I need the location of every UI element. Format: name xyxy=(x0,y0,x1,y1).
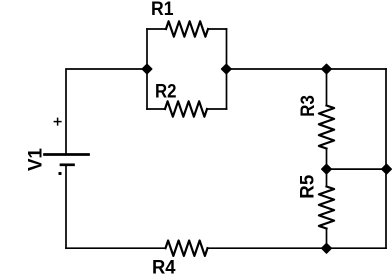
resistor R1 xyxy=(166,21,208,36)
node junction right of parallel block xyxy=(222,64,232,74)
node junction left of parallel block xyxy=(142,64,152,74)
wire bottom: left corner to R4 xyxy=(66,247,166,249)
wire R2 branch left xyxy=(147,108,165,110)
wire mid horizontal xyxy=(327,168,387,170)
resistor R5 xyxy=(319,187,334,229)
wire R2 branch right xyxy=(207,108,227,110)
battery V1 plate short (negative) xyxy=(61,163,74,166)
wire parallel-block right vertical xyxy=(226,29,228,109)
wire R3 to mid node xyxy=(326,149,328,170)
wire bottom: R4 to bottom-right corner xyxy=(208,247,387,249)
node junction R3/R5 mid xyxy=(322,164,332,174)
wire battery bottom terminal down to bottom wire xyxy=(65,166,67,249)
resistor R4 xyxy=(166,241,208,256)
wire right edge xyxy=(385,69,387,248)
node junction bottom of R5 xyxy=(322,244,332,254)
wire top-left: battery + up to top wire, right to parallel node xyxy=(66,69,147,153)
node junction mid wire at right edge xyxy=(382,164,392,174)
wire R3 branch top xyxy=(326,69,328,106)
battery plus sign xyxy=(54,118,62,126)
wire R5 to bottom wire xyxy=(326,229,328,249)
svg-text:R1: R1 xyxy=(151,0,174,20)
wire R1 branch left xyxy=(147,28,166,30)
wire top-right: parallel node to top-right corner xyxy=(227,68,387,70)
node junction top of R3 xyxy=(322,64,332,74)
svg-text:R4: R4 xyxy=(152,258,176,277)
wire mid node down to R5 xyxy=(326,169,328,186)
battery V1 plate long (positive) xyxy=(45,153,89,156)
resistor R2 xyxy=(165,101,207,116)
resistor R3 xyxy=(319,106,334,149)
battery minus mark xyxy=(59,172,62,175)
svg-text:R2: R2 xyxy=(155,82,177,103)
svg-text:V1: V1 xyxy=(26,148,47,171)
wire R1 branch right xyxy=(208,28,227,30)
svg-text:R3: R3 xyxy=(298,95,319,117)
wire parallel-block left vertical xyxy=(146,29,148,109)
svg-text:R5: R5 xyxy=(298,174,319,198)
